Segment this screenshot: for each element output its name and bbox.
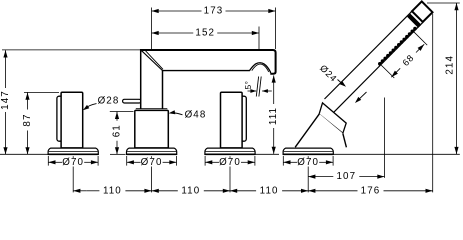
svg-text:5°: 5° bbox=[244, 81, 253, 90]
handle 2 lever flange (right side) bbox=[240, 96, 247, 141]
dimension 61 spout base height bbox=[116, 112, 118, 121]
water stream lines 5deg bbox=[259, 77, 261, 97]
dimension 110 (1st) bbox=[73, 190, 86, 192]
spout arm bottom edge bbox=[162, 70, 250, 72]
extension line handle top level (87) bbox=[24, 91, 59, 93]
spout aerator outer curve bbox=[249, 63, 270, 73]
handshower dark band bbox=[409, 15, 420, 26]
base escutcheon 3 Ø70 bbox=[205, 148, 255, 154]
extension stub base left edge bbox=[126, 156, 128, 166]
holder pointer arrow bbox=[359, 92, 367, 100]
dimension Ø70 base at x=73.2 bbox=[48, 161, 62, 163]
spout body fill bbox=[141, 49, 276, 108]
handshower baton lower-right edge bbox=[334, 22, 423, 112]
spout mitre diagonal 1 bbox=[141, 50, 162, 70]
dimension 68 lower arrow bbox=[391, 71, 398, 78]
extension line below base center x=151.6 bbox=[151, 156, 153, 192]
dimension Ø70 base at x=230.0 bbox=[205, 161, 219, 163]
dimension 176 bbox=[308, 190, 357, 192]
handshower baton upper-left edge bbox=[325, 11, 413, 99]
spout aerator inner curve bbox=[252, 64, 269, 72]
dimension 147 left bbox=[5, 50, 7, 88]
handshower baton body fill bbox=[325, 11, 424, 112]
svg-text:Ø28: Ø28 bbox=[98, 96, 120, 107]
dimension 173 top bbox=[152, 10, 202, 12]
extension stub base right edge bbox=[176, 156, 178, 166]
svg-text:110: 110 bbox=[103, 185, 122, 196]
svg-text:87: 87 bbox=[22, 113, 33, 126]
dimension 68 extension tick upper bbox=[413, 31, 427, 45]
extension stub base right edge bbox=[254, 156, 256, 166]
deck line right segment bbox=[333, 153, 460, 155]
svg-text:111: 111 bbox=[268, 107, 279, 125]
svg-text:Ø48: Ø48 bbox=[185, 109, 207, 120]
deck line stub under spout outlet bbox=[255, 153, 279, 155]
dimension 87 bbox=[27, 93, 29, 110]
dimension Ø70 base at x=308.2 bbox=[283, 161, 297, 163]
dimension Ø70 base at x=151.6 bbox=[127, 161, 141, 163]
dimension 5deg arrows bbox=[248, 90, 257, 92]
spout base cylinder Ø48 bbox=[135, 110, 169, 147]
holder cone right edge bbox=[343, 133, 347, 147]
base escutcheon 2 Ø70 bbox=[127, 148, 177, 154]
dimension 68 upper arrow bbox=[418, 44, 425, 51]
extension tick shower tip top (214) bbox=[427, 2, 460, 4]
spout riser right edge / inner corner bbox=[162, 70, 164, 109]
extension stub base right edge bbox=[97, 156, 99, 166]
spout mitre diagonal 2 bbox=[145, 50, 163, 69]
extension line below base center x=230.0 bbox=[229, 156, 231, 192]
svg-text:Ø70: Ø70 bbox=[297, 157, 319, 168]
dimension 214 right bbox=[456, 3, 458, 154]
extension line Ø48 shoulder level (61) bbox=[110, 110, 134, 112]
holder cone bbox=[295, 114, 346, 147]
dimension 68 extension tick lower bbox=[380, 64, 394, 78]
dimension 68 line segments bbox=[391, 68, 400, 77]
dimension 111 spout outlet height bbox=[273, 75, 275, 104]
deck line left segment bbox=[0, 153, 48, 155]
svg-text:Ø70: Ø70 bbox=[62, 157, 84, 168]
handle 1 lever flange bbox=[57, 96, 64, 141]
handle 2 body bbox=[221, 92, 243, 148]
base escutcheon 4 Ø70 bbox=[283, 148, 333, 154]
label Ø24 leader bbox=[338, 80, 343, 84]
extension line below base center x=73.2 bbox=[72, 156, 74, 192]
svg-text:173: 173 bbox=[204, 6, 224, 17]
extension stub base left edge bbox=[47, 156, 49, 166]
svg-text:Ø70: Ø70 bbox=[219, 157, 241, 168]
handshower spray face teeth bbox=[380, 29, 415, 64]
extension line spout riser centerline top bbox=[151, 8, 153, 50]
extension stub base left edge bbox=[204, 156, 206, 166]
svg-text:110: 110 bbox=[260, 185, 279, 196]
extension line 107 right (spray face) bbox=[384, 98, 386, 178]
label Ø48 leader bbox=[173, 113, 183, 115]
extension stub base right edge bbox=[332, 156, 334, 166]
dimension 110 (3rd) bbox=[230, 190, 256, 192]
extension deck stub under 61 dim bbox=[110, 153, 125, 155]
extension stub base left edge bbox=[282, 156, 284, 166]
extension line 173 right (spout tip) bbox=[275, 8, 277, 50]
dimension 107 bbox=[308, 176, 333, 178]
label Ø28 leader bbox=[86, 104, 97, 109]
svg-text:Ø70: Ø70 bbox=[141, 157, 163, 168]
svg-text:110: 110 bbox=[181, 185, 200, 196]
handshower tip cap bbox=[412, 1, 433, 22]
extension line 176/shower tip bbox=[432, 14, 434, 193]
svg-text:152: 152 bbox=[195, 28, 215, 39]
svg-text:107: 107 bbox=[336, 171, 356, 182]
svg-text:214: 214 bbox=[445, 55, 456, 75]
extension line below base center x=308.2 bbox=[307, 156, 309, 192]
extension line 152 right bbox=[258, 27, 260, 50]
svg-text:61: 61 bbox=[112, 124, 123, 137]
svg-text:176: 176 bbox=[361, 185, 381, 196]
base escutcheon 1 Ø70 bbox=[48, 148, 98, 154]
holder cone left edge bbox=[295, 114, 319, 147]
spout arm top edge and right end bbox=[140, 50, 276, 74]
svg-text:147: 147 bbox=[0, 90, 11, 110]
spout riser left edge bbox=[140, 49, 142, 109]
extension line spout top level going left (147) bbox=[2, 49, 141, 51]
handle 1 body bbox=[61, 92, 83, 148]
spout base cylinder shoulder line bbox=[136, 108, 168, 110]
dimension 152 bbox=[152, 32, 194, 34]
holder collar ring bbox=[319, 103, 346, 133]
spout diverter tab bbox=[123, 99, 141, 103]
dimension 110 (2nd) bbox=[152, 190, 178, 192]
